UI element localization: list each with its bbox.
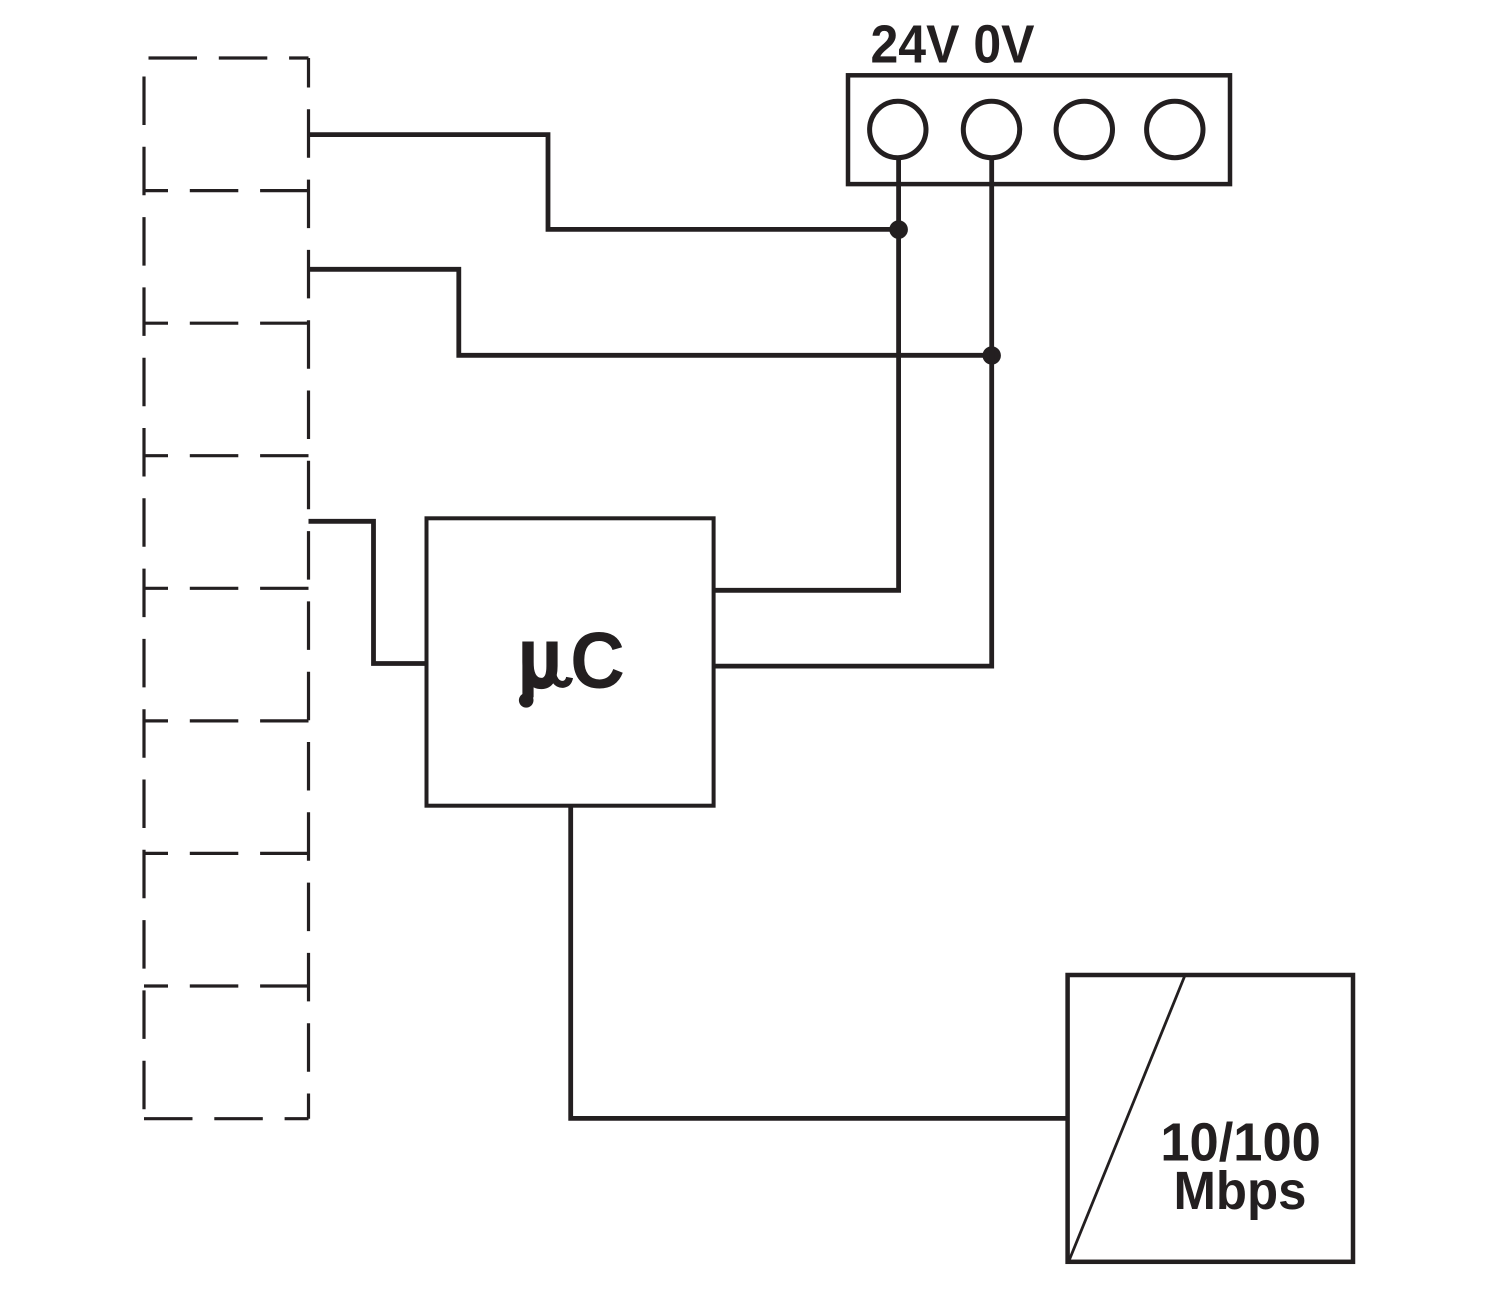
connector X1 cell divider 1 — [144, 189, 309, 192]
ethernet port box 10/100 Mbps — [1068, 975, 1353, 1262]
power terminal block TB1 — [848, 75, 1230, 184]
svg-text:24V 0V: 24V 0V — [871, 15, 1035, 75]
connector X1 cell divider 2 — [144, 322, 309, 325]
connector X1 cell divider 7 — [144, 984, 309, 987]
connector X1 cell divider 5 — [144, 719, 309, 722]
I/O connector X1 (dashed outline) — [144, 58, 309, 1119]
connector X1 cell divider 6 — [144, 852, 309, 855]
wire: 0V terminal down to microcontroller ground pin — [714, 160, 992, 666]
svg-text:C: C — [570, 617, 625, 705]
connector X1 cell divider 3 — [144, 454, 309, 457]
junction node on 24V net — [889, 220, 908, 239]
connector X1 cell divider 4 — [144, 587, 309, 590]
terminal pin 1 (24V) — [870, 101, 926, 157]
ethernet port diagonal stroke — [1070, 976, 1185, 1260]
svg-text:Mbps: Mbps — [1174, 1161, 1307, 1221]
wire: microcontroller to 10/100 Mbps port — [571, 806, 1068, 1119]
wire: connector X1 pin row 1 to 24V terminal — [309, 135, 899, 230]
terminal pin 4 — [1147, 101, 1203, 157]
terminal pin 3 — [1056, 101, 1112, 157]
wire: 24V terminal down to microcontroller supply pin — [714, 160, 899, 591]
microcontroller U1 box — [427, 518, 714, 805]
terminal pin 2 (0V) — [963, 101, 1019, 157]
junction node on 0V net — [983, 346, 1001, 364]
wire: connector X1 pin row 2 to 0V terminal — [309, 269, 992, 355]
microcontroller label µ glyph (custom drawn) — [519, 642, 570, 708]
wire: connector X1 row 4 to microcontroller input — [309, 521, 427, 663]
